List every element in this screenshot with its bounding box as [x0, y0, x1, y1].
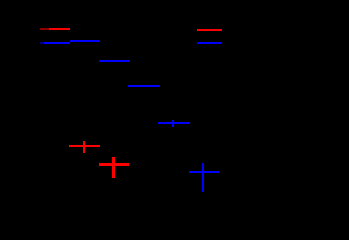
blue series bin4 [128, 85, 160, 87]
blue point 5 horizontal error bar [158, 122, 190, 124]
blue point 5 vertical error bar [172, 120, 174, 128]
red point 1 horizontal error bar [69, 145, 100, 147]
blue point 6 horizontal error bar [189, 171, 219, 173]
red point 2 horizontal error bar [99, 163, 129, 165]
red point 1 vertical error bar [83, 141, 85, 153]
legend blue line [197, 42, 222, 44]
blue series bin3 [99, 60, 130, 62]
red point 2 vertical error bar [112, 157, 114, 178]
red series bin1 bright segment [49, 28, 70, 30]
blue series bin1 dark stub [40, 42, 44, 44]
legend red line [197, 29, 222, 31]
blue point 6 vertical error bar [202, 163, 204, 193]
red series bin1 dark stub [40, 28, 49, 30]
blue series bin1 bright segment [44, 42, 69, 44]
blue series bin2 [70, 40, 101, 42]
